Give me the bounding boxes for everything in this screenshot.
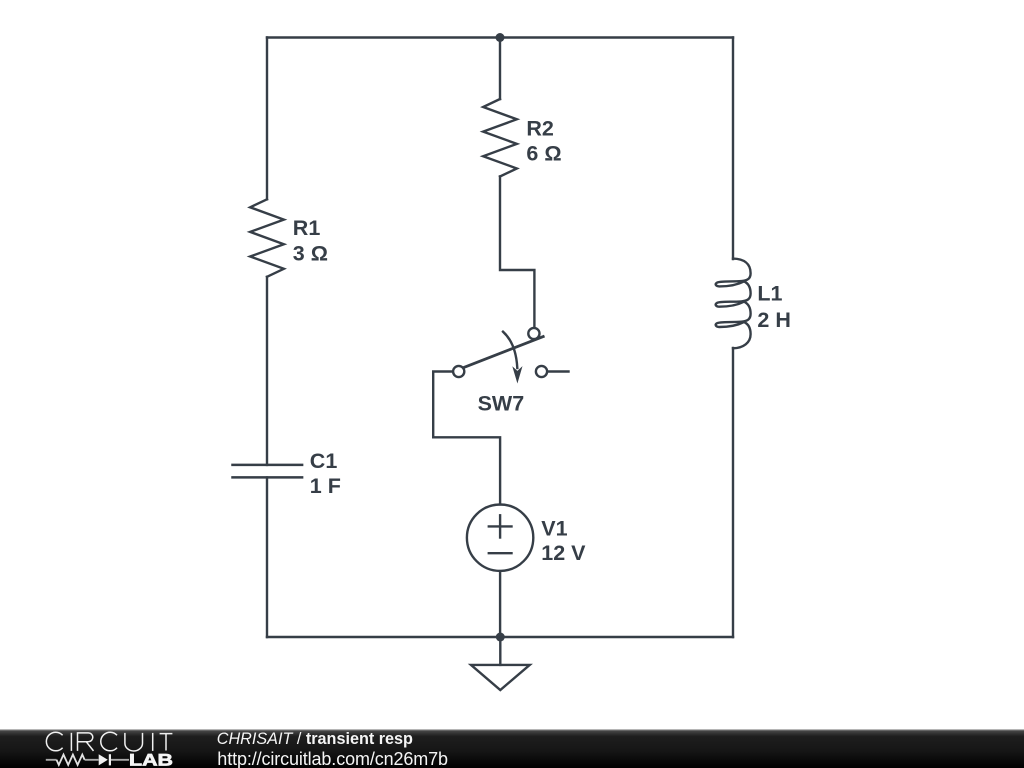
voltage source V1 body — [467, 505, 533, 571]
svg-text:http://circuitlab.com/cn26m7b: http://circuitlab.com/cn26m7b — [217, 749, 448, 768]
logo letter T — [160, 734, 173, 751]
logo letter U — [125, 733, 143, 751]
logo word CIRCUIT (stroked letters) — [46, 732, 172, 751]
ground symbol — [471, 665, 530, 690]
node A junction dot (top) — [496, 33, 505, 42]
logo letter I — [70, 733, 72, 751]
wire R2 to switch top terminal — [500, 177, 534, 328]
wire top rail — [267, 36, 733, 38]
wire left rail lower (C1 to bottom rail) — [266, 477, 268, 637]
svg-text:12 V: 12 V — [541, 541, 586, 565]
logo letter R — [78, 733, 94, 751]
V1 minus sign — [489, 552, 512, 554]
switch SW7 action arrow arc — [503, 332, 517, 368]
svg-text:SW7: SW7 — [478, 391, 525, 415]
node B junction dot (bottom) — [496, 633, 505, 642]
inductor L1 — [716, 259, 751, 349]
logo letter I2 — [152, 733, 154, 751]
resistor R2 — [483, 99, 517, 177]
svg-text:L1: L1 — [757, 282, 782, 306]
wire bottom rail — [267, 636, 733, 638]
logo resistor squiggle and wire — [46, 759, 129, 761]
V1 plus sign — [499, 515, 501, 537]
logo letter C2 — [101, 732, 117, 751]
svg-text:3 Ω: 3 Ω — [293, 242, 328, 266]
wire right rail lower (L1 to bottom rail) — [732, 348, 734, 637]
svg-text:V1: V1 — [541, 517, 567, 541]
capacitor C1 plate bottom — [233, 476, 303, 479]
svg-text:LAB: LAB — [129, 752, 173, 768]
wire switch throw-2 stub — [547, 370, 568, 372]
logo letter C — [46, 732, 62, 751]
wire V1 minus to bottom rail — [499, 571, 501, 637]
wire ground stub — [499, 637, 501, 665]
wire node A to R2 — [499, 38, 501, 100]
svg-text:R2: R2 — [526, 116, 554, 140]
switch SW7 arm — [464, 337, 544, 368]
svg-text:R1: R1 — [293, 216, 321, 240]
logo diode symbol — [99, 754, 108, 765]
resistor R1 — [250, 199, 284, 276]
wire switch pole to V1 plus — [433, 372, 500, 505]
switch SW7 arrow head — [512, 366, 522, 383]
capacitor C1 plate top — [233, 464, 303, 467]
svg-text:6 Ω: 6 Ω — [526, 142, 561, 166]
switch SW7 common pole circle (left) — [453, 366, 464, 377]
switch SW7 terminal 2 circle (right) — [536, 366, 547, 377]
svg-text:CHRISAIT / transient resp: CHRISAIT / transient resp — [217, 730, 413, 748]
wire right rail upper (top rail to L1) — [732, 38, 734, 260]
wire left rail upper (top rail to R1) — [266, 38, 268, 200]
svg-text:2 H: 2 H — [757, 308, 790, 332]
switch SW7 terminal 1 circle (top) — [528, 328, 539, 339]
wire left rail middle (R1 to C1) — [266, 277, 268, 465]
svg-text:1 F: 1 F — [310, 474, 341, 498]
svg-text:C1: C1 — [310, 449, 338, 473]
